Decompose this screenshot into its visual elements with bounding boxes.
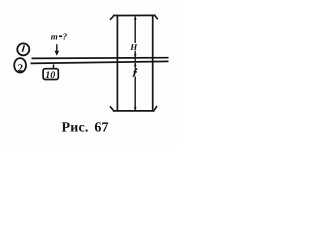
dimension line segment (label H to rail 1)	[134, 51, 136, 57]
circled label 2	[14, 58, 26, 74]
dimension arrowhead up at top bar	[134, 16, 137, 19]
dimension arrowhead up below rail 2	[134, 63, 137, 66]
circled label 1	[17, 43, 29, 55]
arrow m (down arrow onto rail 1)	[55, 44, 60, 56]
dimension line segment (rail 2 to label f)	[134, 63, 136, 69]
label f	[133, 69, 137, 76]
equals dash	[59, 35, 62, 37]
svg-text:10: 10	[45, 70, 55, 81]
bottom-left break tick	[110, 106, 113, 110]
hanger link from rail 2 to weight box	[53, 64, 55, 68]
dimension arrowhead down at rail 1	[134, 54, 137, 57]
svg-text:m: m	[51, 32, 58, 42]
column left wall	[116, 16, 118, 111]
dimension arrowhead down at bottom bar	[134, 107, 137, 110]
bottom-right break tick	[154, 106, 157, 110]
weight box 10	[43, 69, 58, 81]
svg-text:2: 2	[18, 62, 24, 74]
rail 1 (upper horizontal line)	[32, 57, 169, 60]
column top bar	[113, 14, 156, 16]
svg-text:Рис. 67: Рис. 67	[62, 121, 109, 136]
svg-text:H: H	[129, 42, 138, 52]
top-left break tick	[110, 16, 113, 20]
svg-text:?: ?	[63, 31, 68, 41]
dimension line upper segment (top bar to label H)	[134, 16, 136, 43]
column right wall	[152, 16, 154, 111]
top-right break tick	[155, 16, 158, 20]
dimension line segment crossing rails	[134, 58, 136, 63]
column bottom bar	[113, 110, 155, 112]
dimension line lower segment (label f to bottom bar)	[134, 76, 136, 110]
rail 2 (lower horizontal line)	[31, 61, 169, 63]
